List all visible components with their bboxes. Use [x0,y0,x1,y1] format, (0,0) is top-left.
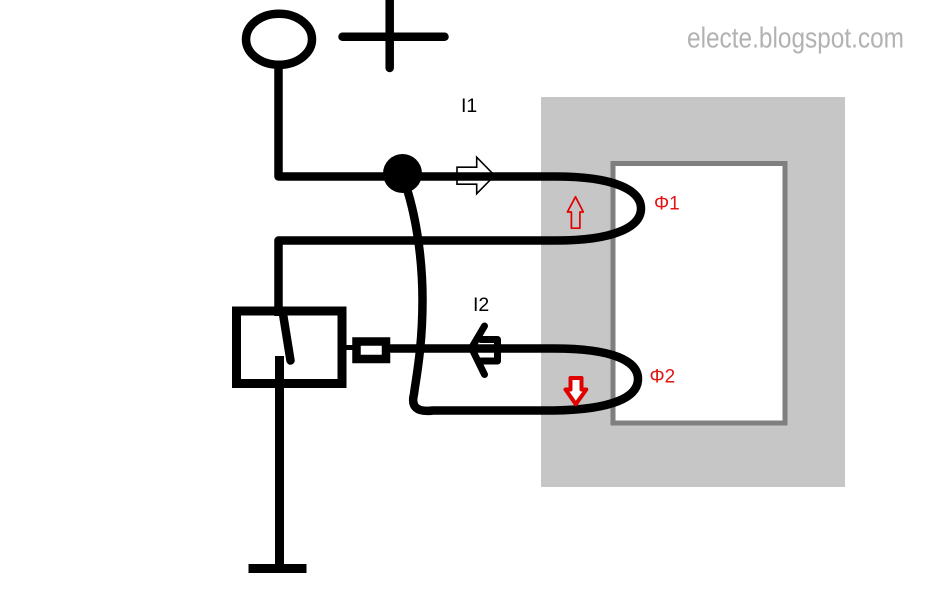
svg-text:I2: I2 [473,294,489,316]
ground bar [249,564,307,573]
flux arrow down (red, white filled) [566,378,587,404]
switch blade [283,314,291,361]
transformer core (shaded gray block) [541,97,845,487]
core window (white opening with gray border) [613,164,785,424]
current arrow I1 (hollow right block arrow) [457,157,495,194]
svg-text:I1: I1 [461,95,477,117]
switch S1 (box) [237,311,343,384]
wire: switch to fuse connector [344,345,357,350]
plus sign (polarity mark) [343,0,445,68]
current arrow I2 (thick left block arrow) [472,326,485,375]
svg-text:Φ2: Φ2 [650,367,676,388]
wire: junction down-curve, bottom return, core loop 2, back to fuse [391,180,638,411]
svg-text:Φ1: Φ1 [654,194,680,215]
node junction dot [383,154,422,193]
flux arrow up (hollow red) [567,197,583,228]
fuse F1 (small box) [357,342,387,360]
voltage source V1 (ellipse) [246,14,312,65]
wire: switch bottom contact down to ground [275,356,284,566]
svg-text:electe.blogspot.com: electe.blogspot.com [687,23,904,55]
wire: source down, top conductor through core loop 1, return at y240, down to switch [279,66,642,316]
